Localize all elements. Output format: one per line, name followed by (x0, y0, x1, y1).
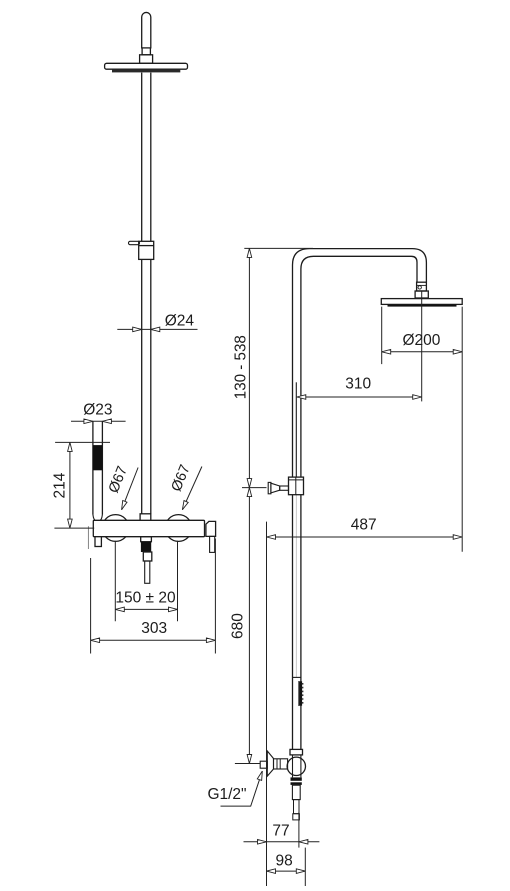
rod extension line (298, 812, 300, 848)
svg-text:G1/2": G1/2" (207, 786, 246, 803)
diverter black band (141, 542, 151, 552)
svg-text:214: 214 (52, 472, 69, 498)
RIGHT VIEW DIMENSIONS (207, 248, 462, 886)
riser pipe outer contour with bend (293, 249, 427, 478)
dimension 130 - 538 (233, 248, 252, 487)
svg-text:Ø23: Ø23 (83, 402, 112, 419)
wall bracket stem (280, 486, 289, 490)
top pipe stub (142, 12, 151, 48)
holder line left end (87, 526, 89, 549)
center collar (140, 514, 151, 521)
shower head plate (side) (381, 299, 462, 305)
dimension Ø23 (71, 402, 126, 424)
outlet rod (293, 800, 300, 820)
right knob circle (165, 515, 192, 542)
head nut (415, 291, 428, 298)
diverter collar (141, 537, 152, 542)
svg-text:150 ± 20: 150 ± 20 (115, 589, 176, 606)
slider lever (129, 241, 140, 244)
label Ø67 left knob (106, 464, 138, 511)
head center line (421, 291, 423, 401)
dimension Ø200 (382, 332, 463, 354)
dimension 487 (267, 517, 463, 540)
telescopic inner tube line (295, 382, 297, 477)
hand shower tube (93, 421, 103, 521)
dimension 214 (52, 442, 111, 528)
left knob circle (102, 515, 129, 542)
left foot tab (95, 537, 101, 547)
wall supply flange (267, 751, 273, 776)
supply nut left (260, 761, 267, 768)
mixer bar body (93, 520, 204, 536)
LEFT VIEW DIMENSIONS (52, 313, 216, 654)
supply union nut (290, 749, 303, 755)
pipe union block (289, 477, 304, 495)
dimension 310 (297, 376, 422, 400)
shower head plate (front) (105, 63, 188, 69)
svg-text:98: 98 (275, 853, 292, 870)
svg-text:310: 310 (345, 376, 371, 393)
head base fitting (140, 55, 153, 64)
riser pipe upper segment (142, 73, 151, 242)
LEFT VIEW (88, 12, 215, 583)
riser pipe lower segment (142, 259, 151, 513)
diverter nut (143, 552, 152, 561)
svg-text:303: 303 (141, 620, 167, 637)
ball joint (417, 282, 427, 291)
right holder tab (210, 536, 215, 552)
spray face band (112, 70, 180, 73)
svg-text:130 - 538: 130 - 538 (233, 335, 250, 399)
dimension 150 ± 20 (115, 541, 177, 622)
right end cap (206, 521, 216, 536)
svg-text:487: 487 (351, 517, 377, 534)
svg-text:Ø200: Ø200 (402, 332, 440, 349)
mid extension line (242, 487, 267, 489)
label Ø67 right knob (169, 462, 202, 510)
wall bracket flange (268, 482, 271, 493)
svg-text:77: 77 (272, 822, 289, 839)
dimension 303 (91, 539, 216, 654)
wall extension line (266, 522, 268, 886)
dimension 680 (230, 488, 252, 764)
svg-text:680: 680 (230, 613, 247, 639)
RIGHT VIEW (260, 249, 462, 820)
98 right extension line (304, 848, 306, 886)
head left extension line (381, 307, 383, 365)
dimension 98 (267, 853, 306, 874)
svg-text:Ø24: Ø24 (165, 313, 195, 330)
wall bracket cone (271, 483, 280, 493)
diverter tube (145, 561, 150, 583)
riser pipe inner contour with bend (301, 256, 417, 477)
label G1/2" (207, 770, 264, 806)
hand shower grip (side) (299, 681, 303, 706)
pipe through diverter (293, 755, 301, 778)
dimension 77 (244, 822, 320, 844)
bottom extension line (235, 763, 260, 765)
head right extension line (461, 307, 463, 552)
top nut (142, 48, 150, 55)
supply cylinder (274, 759, 288, 769)
diverter body circle (287, 757, 305, 775)
dimension Ø24 (117, 313, 197, 332)
riser pipe below bracket (293, 495, 301, 750)
slider block (139, 241, 154, 259)
hose line behind pipe (295, 495, 297, 677)
outlet tube (292, 785, 300, 799)
check valve black bands (291, 777, 302, 784)
top extension line (244, 247, 313, 249)
spray face band (side) (388, 305, 457, 307)
hand shower top edge (side) (293, 676, 301, 678)
hand shower grip band (93, 445, 103, 470)
